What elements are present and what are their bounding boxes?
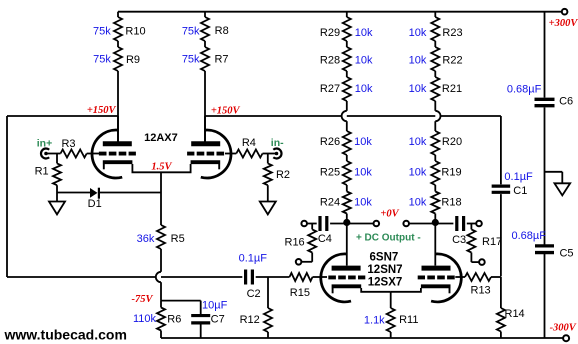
svg-text:10k: 10k [354, 197, 372, 209]
wire R8-R7 [204, 41, 206, 47]
resistor R2 [264, 154, 272, 186]
label www.tubecad.com [4, 326, 127, 342]
svg-text:R4: R4 [242, 137, 256, 149]
label R26 value 10k [354, 136, 372, 148]
terminal DC output - [403, 221, 409, 227]
svg-text:R15: R15 [290, 287, 310, 299]
wire R24 to node [346, 214, 348, 224]
wire hop to -75V node [160, 282, 162, 300]
svg-text:C5: C5 [559, 248, 573, 260]
wire R19-R18 [434, 185, 436, 192]
svg-text:10k: 10k [355, 83, 373, 95]
resistor R15 [290, 273, 313, 281]
label C5 [559, 248, 573, 260]
label R11 [399, 314, 418, 326]
wire R6 to rail [160, 331, 162, 339]
wire C2 to R15 [256, 276, 290, 278]
label R27 [320, 83, 340, 95]
terminal R16 bottom [296, 259, 302, 265]
svg-text:75k: 75k [182, 26, 200, 38]
resistor R18 [431, 192, 439, 214]
wire node A to output+ [347, 223, 373, 225]
label R5 [171, 233, 185, 245]
svg-text:R5: R5 [171, 233, 185, 245]
label R12 [240, 314, 260, 326]
capacitor C1 [492, 186, 511, 192]
terminal in+ [41, 149, 49, 159]
wire ground stem R2 [267, 185, 269, 201]
label R18 [441, 197, 461, 209]
svg-text:10k: 10k [354, 167, 372, 179]
label +300V [549, 18, 578, 29]
resistor R27 [343, 77, 351, 101]
wire cathode lead U2a [361, 288, 391, 292]
capacitor C4 [320, 216, 327, 231]
label R10 [125, 26, 145, 38]
label -75V [132, 294, 154, 305]
label R7 [214, 54, 228, 66]
wire R28-R27 [346, 71, 348, 77]
label 1.5V [151, 162, 172, 173]
label R27 value 10k [355, 83, 373, 95]
label R10 value 75k [93, 26, 111, 38]
svg-text:R17: R17 [482, 236, 502, 248]
plate U1a [103, 141, 132, 146]
wire R25-R24 [346, 185, 348, 192]
label R7 value 75k [182, 54, 200, 66]
ground right [554, 183, 570, 195]
svg-text:C1: C1 [513, 185, 527, 197]
capacitor C5 [535, 246, 554, 253]
svg-text:+ DC Output -: + DC Output - [356, 232, 421, 243]
svg-text:75k: 75k [93, 26, 111, 38]
label C3 [452, 234, 466, 246]
svg-text:0.1µF: 0.1µF [504, 171, 533, 183]
svg-text:36k: 36k [137, 233, 155, 245]
label R8 value 75k [182, 26, 200, 38]
wire bottom feedback to C2 [7, 276, 242, 278]
label R20 [442, 136, 462, 148]
wire grid U2b to R13 [455, 276, 465, 278]
plate U2b [422, 266, 451, 271]
label 12AX7 [144, 132, 178, 144]
wire node B to C3 [435, 223, 453, 225]
svg-text:10k: 10k [409, 197, 427, 209]
svg-text:C6: C6 [559, 96, 573, 108]
wire -75V branch to C7 [161, 300, 201, 302]
svg-text:10k: 10k [409, 55, 427, 67]
wire hop over feedback at chain A [342, 111, 347, 121]
label +150V left [87, 105, 117, 116]
svg-text:+150V: +150V [87, 105, 117, 116]
resistor R20 [431, 131, 439, 155]
wire R23 top lead [434, 12, 436, 17]
terminal in- [273, 149, 281, 159]
svg-text:C4: C4 [318, 233, 332, 245]
svg-text:R13: R13 [471, 285, 491, 297]
svg-text:R9: R9 [126, 54, 140, 66]
wire R13 to column [491, 276, 501, 278]
wire R22-R21 [434, 71, 436, 77]
svg-text:R1: R1 [35, 166, 49, 178]
svg-text:1.1k: 1.1k [364, 314, 385, 326]
label R21 [442, 83, 462, 95]
svg-text:R20: R20 [442, 136, 462, 148]
wire C7 bottom lead [200, 324, 202, 338]
terminal -300V [563, 335, 569, 341]
envelope U2a [321, 254, 351, 302]
wire hop to R20 [434, 121, 436, 131]
resistor R11 [387, 308, 395, 332]
wire right power column upper [544, 12, 546, 98]
svg-text:R11: R11 [399, 314, 418, 326]
svg-text:www.tubecad.com: www.tubecad.com [4, 326, 127, 342]
label C6 [559, 96, 573, 108]
node A junction [343, 219, 350, 226]
label R9 [126, 54, 140, 66]
wire hop over C2 feedback [156, 272, 161, 282]
svg-text:R16: R16 [285, 236, 305, 248]
wire R29-R28 [346, 41, 348, 47]
ground left [49, 202, 65, 215]
label C7 [211, 314, 225, 326]
wire cathode lead U1b [161, 164, 191, 172]
wire C1 to R13 node [500, 194, 502, 276]
wire R5 to hop [160, 249, 162, 272]
wire hop over feedback at chain B [435, 111, 440, 121]
label R1 [35, 166, 49, 178]
svg-text:C3: C3 [452, 234, 466, 246]
label R6 value 110k [133, 313, 157, 325]
wire in+ to R3 [46, 153, 61, 155]
wire R15 to grid [313, 276, 328, 278]
wire R27 to hop [346, 101, 348, 111]
resistor R10 [114, 17, 122, 41]
label R16 [285, 236, 305, 248]
wire R21 to hop [434, 101, 436, 111]
wire plate lead right triode U1b [204, 116, 206, 142]
wire R1 to ground node [56, 185, 58, 192]
wire cathode junction U2 down [390, 292, 392, 308]
wire R4 to in- [263, 153, 277, 155]
label C1 [513, 185, 527, 197]
svg-text:1.5V: 1.5V [151, 162, 172, 173]
label R9 value 75k [93, 54, 111, 66]
wire R23-R22 [434, 41, 436, 47]
label R29 value 10k [355, 27, 373, 39]
label R22 [442, 55, 462, 67]
label R21 value 10k [409, 83, 427, 95]
svg-text:110k: 110k [133, 313, 157, 325]
label D1 [88, 198, 102, 210]
label R13 [471, 285, 491, 297]
label R25 value 10k [354, 167, 372, 179]
resistor R14 [497, 277, 505, 338]
label R19 value 10k [409, 167, 427, 179]
wire R8 top lead [204, 12, 206, 17]
svg-text:+0V: +0V [380, 209, 399, 220]
wire plate lead left triode U1a [117, 116, 119, 142]
terminal R17 top [476, 221, 482, 227]
svg-text:R26: R26 [320, 136, 340, 148]
label R4 [242, 137, 256, 149]
wire D1 cathode to center [99, 192, 161, 194]
envelope U2b [431, 254, 461, 302]
label -300V [550, 322, 577, 333]
svg-text:R14: R14 [505, 308, 525, 320]
resistor R13 [465, 273, 491, 281]
capacitor C2 [246, 270, 253, 285]
svg-text:R29: R29 [320, 27, 340, 39]
svg-text:R3: R3 [61, 138, 75, 150]
capacitor C7 [191, 316, 210, 323]
svg-text:0.68µF: 0.68µF [511, 230, 546, 242]
resistor R3 [61, 150, 87, 158]
svg-text:6SN7: 6SN7 [370, 251, 399, 263]
wire D1 anode [57, 192, 91, 194]
wire cathode junction down [160, 172, 162, 225]
wire C7 top lead [200, 301, 202, 315]
label C2 value 0.1uF [239, 253, 268, 265]
svg-text:75k: 75k [93, 54, 111, 66]
resistor R21 [431, 77, 439, 101]
svg-text:in+: in+ [37, 137, 52, 149]
svg-text:+150V: +150V [211, 106, 241, 117]
resistor R23 [431, 17, 439, 41]
resistor R17 [467, 224, 478, 263]
capacitor C6 [535, 99, 555, 105]
wire R29 top lead [346, 12, 348, 17]
svg-text:R19: R19 [441, 167, 461, 179]
label R17 [482, 236, 502, 248]
wire R10 top lead [117, 12, 119, 17]
resistor R16 [302, 224, 317, 262]
svg-text:10k: 10k [355, 55, 373, 67]
resistor R19 [431, 161, 439, 185]
wire right power column mid [544, 107, 546, 244]
wire plate lead U2a [346, 224, 348, 266]
terminal DC output + [374, 221, 380, 227]
svg-text:R21: R21 [442, 83, 462, 95]
resistor R1 [53, 154, 61, 186]
svg-text:R7: R7 [214, 54, 228, 66]
label R24 value 10k [354, 197, 372, 209]
wire left feedback top [7, 115, 118, 117]
label +0V [380, 209, 399, 220]
resistor R7 [201, 47, 209, 71]
label +150V right [211, 106, 241, 117]
resistor R12 [264, 277, 272, 338]
wire grid U1b to R4 [225, 153, 236, 155]
wire hop to R26 [346, 121, 348, 131]
cathode U1a [103, 162, 133, 169]
resistor R9 [114, 47, 122, 71]
label DC Output [356, 232, 421, 243]
svg-text:10k: 10k [354, 136, 372, 148]
wire C4 to node A [330, 223, 347, 225]
label R11 value 1.1k [364, 314, 385, 326]
wire left edge vertical [6, 116, 8, 277]
label R23 [442, 27, 462, 39]
resistor R26 [343, 131, 351, 155]
svg-text:12SX7: 12SX7 [368, 277, 403, 289]
label 12SN7 [367, 264, 402, 276]
label C4 [318, 233, 332, 245]
label R5 value 36k [137, 233, 155, 245]
wire C3 to terminal [467, 223, 476, 225]
svg-text:R28: R28 [320, 55, 340, 67]
svg-text:12AX7: 12AX7 [144, 132, 178, 144]
resistor R22 [431, 47, 439, 71]
capacitor C3 [457, 216, 464, 231]
wire top +300V rail [118, 11, 562, 13]
svg-text:R18: R18 [441, 197, 461, 209]
label R28 [320, 55, 340, 67]
plate U1b [191, 141, 220, 146]
wire R10-R9 [117, 41, 119, 47]
resistor R6 [157, 301, 165, 331]
wire cathode lead U1a [132, 164, 161, 172]
label R29 [320, 27, 340, 39]
wire R26-R25 [346, 155, 348, 161]
svg-text:in-: in- [271, 137, 284, 149]
wire terminal to C4 [307, 223, 316, 225]
plate U2a [332, 266, 361, 271]
svg-text:C2: C2 [247, 288, 261, 300]
wire cathode lead U2b [391, 288, 421, 292]
cathode U2a [332, 286, 362, 293]
wire R9 to plate node [117, 71, 119, 142]
wire ground stem R1 [56, 193, 58, 202]
node B junction [432, 219, 439, 226]
resistor R4 [236, 150, 262, 158]
label R3 [61, 138, 75, 150]
svg-text:10k: 10k [409, 27, 427, 39]
label R19 [441, 167, 461, 179]
label R26 [320, 136, 340, 148]
label R18 value 10k [409, 197, 427, 209]
svg-text:R25: R25 [320, 167, 340, 179]
svg-text:C7: C7 [211, 314, 225, 326]
label R22 value 10k [409, 55, 427, 67]
resistor R29 [343, 17, 351, 41]
label 6SN7 [370, 251, 399, 263]
wire R11 to rail [390, 332, 392, 338]
svg-text:R6: R6 [167, 314, 181, 326]
svg-text:-75V: -75V [132, 294, 154, 305]
ground right input [260, 202, 276, 215]
grid U2a [328, 275, 365, 279]
wire right feedback down [500, 116, 502, 184]
wire bottom -300V rail [161, 337, 563, 339]
wire R18 to node [434, 214, 436, 224]
svg-text:10k: 10k [409, 167, 427, 179]
grid U1b [187, 152, 224, 156]
svg-text:R22: R22 [442, 55, 462, 67]
wire ground branch [545, 172, 563, 184]
wire right feedback horizontal [205, 115, 501, 117]
envelope U1b [201, 130, 231, 178]
envelope U1a [92, 130, 122, 178]
terminal +300V [562, 9, 568, 15]
wire output- to node B [409, 223, 435, 225]
label C7 value 10uF [202, 300, 228, 312]
svg-text:0.68µF: 0.68µF [507, 83, 542, 95]
resistor R28 [343, 47, 351, 71]
grid U2b [418, 275, 455, 279]
wire right power column lower [544, 254, 546, 338]
label R20 value 10k [409, 136, 427, 148]
label C2 [247, 288, 261, 300]
wire R20-R19 [434, 155, 436, 161]
svg-text:R23: R23 [442, 27, 462, 39]
wire plate lead U2b [434, 224, 436, 266]
svg-text:10µF: 10µF [202, 300, 228, 312]
svg-text:10k: 10k [409, 83, 427, 95]
svg-text:0.1µF: 0.1µF [239, 253, 268, 265]
diode D1 [90, 188, 99, 199]
terminal R16 top [301, 221, 307, 227]
svg-text:D1: D1 [88, 198, 102, 210]
wire R7 to plate node [204, 71, 206, 142]
svg-text:10k: 10k [355, 27, 373, 39]
terminal R17 bottom [479, 259, 485, 265]
svg-text:-300V: -300V [550, 322, 577, 333]
label R6 [167, 314, 181, 326]
label R8 [215, 25, 229, 37]
svg-text:R8: R8 [215, 25, 229, 37]
label R2 [276, 169, 290, 181]
cathode U1b [191, 162, 221, 169]
resistor R5 [157, 225, 165, 249]
svg-text:R27: R27 [320, 83, 340, 95]
svg-text:10k: 10k [409, 136, 427, 148]
svg-text:12SN7: 12SN7 [367, 264, 402, 276]
svg-text:R12: R12 [240, 314, 260, 326]
cathode U2b [421, 286, 451, 293]
svg-text:+300V: +300V [549, 18, 578, 29]
label R23 value 10k [409, 27, 427, 39]
label R15 [290, 287, 310, 299]
label C1 value 0.1uF [504, 171, 533, 183]
grid U1a [99, 152, 136, 156]
svg-text:75k: 75k [182, 54, 200, 66]
label R28 value 10k [355, 55, 373, 67]
label in- [271, 137, 284, 149]
label C5 value 0.68uF [511, 230, 546, 242]
svg-text:R24: R24 [320, 197, 340, 209]
svg-text:R10: R10 [125, 26, 145, 38]
label C6 value 0.68uF [507, 83, 542, 95]
label R25 [320, 167, 340, 179]
label R24 [320, 197, 340, 209]
resistor R8 [201, 17, 209, 41]
svg-text:R2: R2 [276, 169, 290, 181]
label R14 [505, 308, 525, 320]
label in+ [37, 137, 52, 149]
label 12SX7 [368, 277, 403, 289]
resistor R24 [343, 192, 351, 214]
resistor R25 [343, 161, 351, 185]
wire R3 to grid U1a [87, 153, 99, 155]
